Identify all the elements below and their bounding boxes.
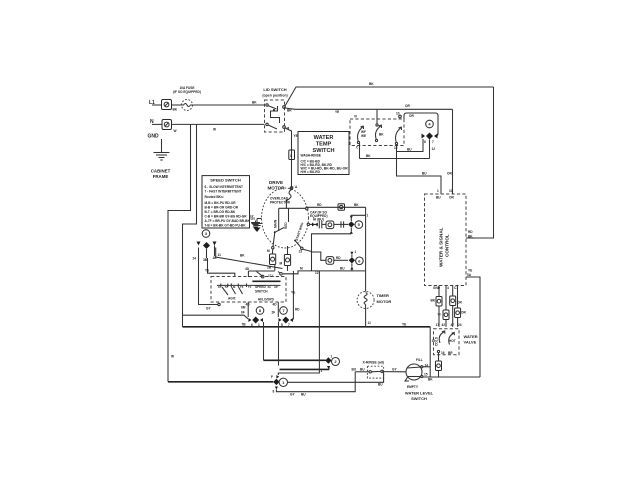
X-RINSE option dashed box xyxy=(352,361,384,379)
svg-text:FRAME: FRAME xyxy=(153,174,169,179)
ground motor frame xyxy=(249,215,263,233)
svg-text:11: 11 xyxy=(368,321,372,325)
svg-text:OR: OR xyxy=(461,311,466,315)
svg-text:OR: OR xyxy=(457,301,462,305)
svg-text:SPEED: SPEED xyxy=(255,285,267,289)
svg-text:BU: BU xyxy=(436,196,441,200)
svg-text:OR: OR xyxy=(447,172,452,176)
svg-text:YE: YE xyxy=(402,323,406,327)
svg-text:4D: 4D xyxy=(245,267,250,271)
svg-text:RD: RD xyxy=(317,203,322,207)
svg-text:MAIN: MAIN xyxy=(274,219,278,228)
svg-text:15: 15 xyxy=(424,373,428,377)
svg-text:HI/LO/SPD: HI/LO/SPD xyxy=(258,298,275,302)
svg-text:42: 42 xyxy=(442,323,446,327)
wire switch to control YE xyxy=(423,376,480,378)
wire connector3 left to speed switch xyxy=(199,248,221,311)
wire vertical to timer xyxy=(365,207,367,271)
svg-text:TIMER: TIMER xyxy=(377,293,390,298)
node L1 xyxy=(149,100,162,106)
svg-text:W: W xyxy=(174,129,177,133)
svg-text:YE: YE xyxy=(468,269,472,273)
svg-text:DRIVE: DRIVE xyxy=(269,180,283,185)
connector 7 xyxy=(272,271,301,327)
svg-text:1: 1 xyxy=(367,214,369,218)
svg-text:7: 7 xyxy=(288,323,290,327)
svg-text:SWITCH: SWITCH xyxy=(411,396,427,401)
svg-text:7-B = BK-BK GY-BD PU-BK: 7-B = BK-BK GY-BD PU-BK xyxy=(205,224,247,228)
svg-text:17: 17 xyxy=(436,323,440,327)
svg-text:BU: BU xyxy=(352,368,357,372)
svg-text:AGIT.: AGIT. xyxy=(228,297,236,301)
wire connector1 bottom run xyxy=(276,372,383,397)
wire GY into switch xyxy=(382,368,405,372)
svg-text:T3: T3 xyxy=(240,285,244,289)
svg-text:2F: 2F xyxy=(272,311,276,315)
svg-text:12: 12 xyxy=(315,271,319,275)
svg-text:T2: T2 xyxy=(225,285,229,289)
svg-text:BK: BK xyxy=(369,82,374,86)
inline fuse box B2 xyxy=(450,296,463,327)
node N xyxy=(150,119,162,125)
svg-text:CABINET: CABINET xyxy=(151,169,171,174)
wire speed switch to connector1 top xyxy=(278,271,322,375)
svg-text:BK: BK xyxy=(354,203,359,207)
svg-text:1: 1 xyxy=(321,369,323,373)
wire L1 to lid switch xyxy=(193,104,265,106)
water valve dashed box xyxy=(434,323,478,355)
svg-text:PROTECTOR: PROTECTOR xyxy=(270,201,291,205)
svg-text:CONTROL: CONTROL xyxy=(445,234,450,257)
svg-text:1: 1 xyxy=(437,189,439,193)
wire connector1 right side xyxy=(288,373,384,383)
wire neutral to connector 8 xyxy=(183,315,249,319)
control bottom pins xyxy=(433,286,458,311)
svg-text:T4: T4 xyxy=(248,285,252,289)
inline fuse box B3 xyxy=(438,310,450,327)
lid switch S1 xyxy=(262,87,292,132)
svg-text:EMPTY: EMPTY xyxy=(407,385,419,389)
svg-text:M-B = BK-PU RD-OR: M-B = BK-PU RD-OR xyxy=(205,201,237,205)
connector row 6 xyxy=(303,249,363,271)
svg-text:M: M xyxy=(267,249,270,253)
svg-text:HOT: HOT xyxy=(449,339,456,343)
svg-text:8: 8 xyxy=(290,154,292,158)
svg-text:BK: BK xyxy=(428,378,433,382)
wire neutral branch A xyxy=(168,124,191,381)
svg-text:5: 5 xyxy=(281,323,283,327)
svg-text:12: 12 xyxy=(394,146,398,150)
wire valve to water level switch xyxy=(438,353,440,361)
svg-text:(IF SO EQUIPPED): (IF SO EQUIPPED) xyxy=(173,90,201,94)
speed switch legend box xyxy=(202,176,250,228)
wire neutral branch B xyxy=(183,124,217,326)
svg-text:BK: BK xyxy=(379,133,384,137)
svg-text:BU: BU xyxy=(340,267,345,271)
svg-text:TEMP: TEMP xyxy=(316,142,332,148)
svg-text:BU: BU xyxy=(407,148,412,152)
capacitor C1 row connector 5 xyxy=(310,211,369,234)
svg-text:7: 7 xyxy=(432,140,434,144)
svg-text:7B: 7B xyxy=(242,323,247,327)
svg-text:M: M xyxy=(280,262,283,266)
svg-text:6: 6 xyxy=(251,323,253,327)
svg-text:BU: BU xyxy=(378,383,383,387)
svg-text:4D: 4D xyxy=(273,303,278,307)
inline fuse box B5 xyxy=(436,361,442,377)
svg-text:AP: AP xyxy=(274,285,278,289)
wire N to lid switch xyxy=(172,123,265,125)
svg-text:VALVE: VALVE xyxy=(464,340,477,345)
wire bottom run to X-RINSE xyxy=(355,371,369,373)
svg-text:BK: BK xyxy=(240,254,245,258)
svg-text:H/H = BU-RD: H/H = BU-RD xyxy=(301,170,321,174)
svg-text:YE: YE xyxy=(335,110,339,114)
svg-text:6F: 6F xyxy=(241,311,245,315)
terminal block TB2 xyxy=(162,120,177,134)
svg-text:WATER LEVEL: WATER LEVEL xyxy=(405,391,434,396)
ground GND cabinet frame xyxy=(148,134,171,180)
svg-text:1L: 1L xyxy=(218,285,222,289)
svg-text:10: 10 xyxy=(449,189,453,193)
svg-text:WASH-RINSE: WASH-RINSE xyxy=(301,154,321,158)
timer motor M2 xyxy=(357,271,391,327)
svg-text:13: 13 xyxy=(299,250,303,254)
connector 3 xyxy=(193,230,218,262)
svg-text:YE: YE xyxy=(291,291,295,295)
wire OR to control top xyxy=(447,109,453,194)
svg-text:BK: BK xyxy=(252,101,257,105)
svg-text:OR: OR xyxy=(449,196,454,200)
svg-text:WATER: WATER xyxy=(314,135,334,141)
wire connector8 to connector2 xyxy=(263,322,265,360)
svg-text:F: F xyxy=(271,375,273,379)
svg-text:RD: RD xyxy=(336,256,341,260)
svg-text:WATER: WATER xyxy=(464,334,478,339)
svg-text:7 - FAST INTERMITTENT: 7 - FAST INTERMITTENT xyxy=(205,190,242,194)
svg-text:16: 16 xyxy=(441,351,445,355)
heavy bus wire bottom xyxy=(183,323,436,378)
drive motor M1 xyxy=(262,180,310,254)
svg-text:X-RINSE (all): X-RINSE (all) xyxy=(363,361,384,365)
svg-text:SWITCH: SWITCH xyxy=(255,290,268,294)
wire below motor run xyxy=(283,267,366,274)
water level switch S2 xyxy=(405,358,434,401)
wire control right pin YE xyxy=(466,269,480,378)
water temp switch box U2 xyxy=(298,132,349,175)
svg-text:W: W xyxy=(213,128,216,132)
svg-text:WE: WE xyxy=(361,134,366,138)
wire connector3 right to speed switch xyxy=(216,248,283,269)
svg-text:B-B = BR-OR GRD-OR: B-B = BR-OR GRD-OR xyxy=(205,206,239,210)
inline fuse box B1 xyxy=(431,297,443,327)
temp switch contacts dashed box xyxy=(350,109,404,145)
svg-text:1: 1 xyxy=(331,355,333,359)
svg-text:BU: BU xyxy=(360,368,365,372)
svg-text:OR: OR xyxy=(405,104,410,108)
wire BU to connector 4 xyxy=(397,139,423,152)
connector U4 xyxy=(396,112,438,159)
svg-text:BR: BR xyxy=(448,351,453,355)
svg-text:BU: BU xyxy=(422,172,427,176)
svg-text:(open position): (open position) xyxy=(262,94,287,98)
wires below motor to connector boxes xyxy=(267,246,291,278)
inline fuse box B4 xyxy=(455,308,467,327)
svg-text:C-B = BR-BR GY-BG RD-GR: C-B = BR-BR GY-BG RD-GR xyxy=(205,215,248,219)
svg-text:24: 24 xyxy=(458,323,462,327)
svg-text:OR: OR xyxy=(409,114,414,118)
svg-text:11: 11 xyxy=(218,253,222,257)
wire xyxy=(172,104,182,106)
svg-text:4D: 4D xyxy=(246,303,251,307)
wire BK lid switch to right side xyxy=(285,82,494,239)
svg-text:RD: RD xyxy=(295,308,300,312)
svg-text:8: 8 xyxy=(424,140,426,144)
svg-text:3A: 3A xyxy=(268,285,272,289)
svg-text:LID SWITCH: LID SWITCH xyxy=(263,87,286,92)
svg-text:M: M xyxy=(300,267,303,271)
svg-text:GND: GND xyxy=(148,134,160,140)
svg-text:5A: 5A xyxy=(467,273,472,277)
svg-text:RED: RED xyxy=(284,222,288,229)
svg-text:24: 24 xyxy=(193,257,197,261)
svg-text:MOTOR: MOTOR xyxy=(377,299,392,304)
svg-text:BK: BK xyxy=(366,154,371,158)
speed switch dashed box xyxy=(211,277,286,303)
wire YE lid switch to temp contacts xyxy=(285,104,453,114)
control module dashed box xyxy=(425,194,467,286)
svg-text:10: 10 xyxy=(396,112,400,116)
svg-text:RD: RD xyxy=(468,230,473,234)
svg-text:B-T = BR-OG RD-BK: B-T = BR-OG RD-BK xyxy=(205,210,236,214)
wire connector7 to connector2 lower pin xyxy=(279,322,330,369)
connector 8 xyxy=(241,302,264,327)
svg-text:WATER & SIGNAL: WATER & SIGNAL xyxy=(439,227,444,267)
svg-text:W: W xyxy=(171,355,174,359)
svg-text:A-7F = BR-PU GY-BAD BR-BK: A-7F = BR-PU GY-BAD BR-BK xyxy=(205,219,251,223)
ground legend xyxy=(251,217,261,231)
svg-text:BK: BK xyxy=(431,299,436,303)
svg-text:6 - SLOW INTERMITTENT: 6 - SLOW INTERMITTENT xyxy=(205,185,243,189)
wire YE lid switch to drive motor xyxy=(285,128,298,187)
fuse F1 10A xyxy=(173,86,201,111)
svg-text:YE: YE xyxy=(294,134,298,138)
svg-text:1: 1 xyxy=(258,323,260,327)
wire control right pin RD xyxy=(466,237,475,239)
svg-text:BU: BU xyxy=(301,393,306,397)
svg-text:1: 1 xyxy=(355,250,357,254)
svg-text:12: 12 xyxy=(432,147,436,151)
svg-text:VI: VI xyxy=(354,115,357,119)
wire connector3 mid to speed switch top xyxy=(208,258,235,277)
wire motor top cap row xyxy=(306,203,366,210)
connector 1 xyxy=(168,375,287,394)
svg-text:Routed BKs:: Routed BKs: xyxy=(205,195,224,199)
svg-text:YE: YE xyxy=(205,269,209,273)
wire BK temp switch bottom xyxy=(356,144,430,159)
svg-text:FILL: FILL xyxy=(416,358,423,362)
svg-text:VI: VI xyxy=(438,313,441,317)
svg-text:4: 4 xyxy=(447,286,449,290)
svg-text:BK: BK xyxy=(173,108,178,112)
terminal block TB1 xyxy=(162,100,178,112)
wire connector5 lower arrow to motor area xyxy=(312,234,352,271)
svg-text:8: 8 xyxy=(273,390,275,394)
connector 2 xyxy=(264,355,340,370)
svg-text:SPEED SWITCH: SPEED SWITCH xyxy=(210,178,241,183)
svg-text:6M: 6M xyxy=(241,306,246,310)
svg-text:15: 15 xyxy=(432,339,436,343)
wire BU temp switch to control xyxy=(394,145,441,195)
svg-text:47: 47 xyxy=(451,323,455,327)
inline connector on motor wire xyxy=(289,150,295,160)
svg-text:GND: GND xyxy=(433,286,441,290)
